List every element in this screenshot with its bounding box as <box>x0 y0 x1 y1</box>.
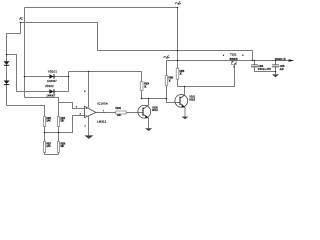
svg-text:BCM143: BCM143 <box>230 58 239 61</box>
svg-text:1N4007: 1N4007 <box>47 80 57 83</box>
svg-text:9013: 9013 <box>152 108 158 112</box>
svg-text:2.4K: 2.4K <box>46 144 51 148</box>
svg-text:AC: AC <box>19 16 22 20</box>
svg-text:VD102: VD102 <box>45 84 54 88</box>
svg-text:1K: 1K <box>168 79 171 83</box>
svg-text:51K: 51K <box>60 119 64 123</box>
svg-text:VD101: VD101 <box>48 69 57 73</box>
svg-text:1K: 1K <box>180 72 183 76</box>
svg-text:1K: 1K <box>144 84 147 88</box>
svg-text:1N4007: 1N4007 <box>46 94 56 97</box>
svg-text:LM311: LM311 <box>97 120 107 124</box>
svg-text:R103: R103 <box>115 106 121 110</box>
svg-text:T101: T101 <box>230 53 237 57</box>
svg-text:10K: 10K <box>117 113 121 117</box>
svg-text:330nF+47R: 330nF+47R <box>258 68 271 71</box>
svg-text:9013: 9013 <box>189 97 195 101</box>
svg-text:230VAC_IN: 230VAC_IN <box>275 58 286 61</box>
svg-text:IC100A: IC100A <box>97 102 108 106</box>
svg-text:2.2n: 2.2n <box>280 67 285 71</box>
svg-text:51K: 51K <box>60 144 64 148</box>
svg-text:2.4K: 2.4K <box>46 119 51 123</box>
